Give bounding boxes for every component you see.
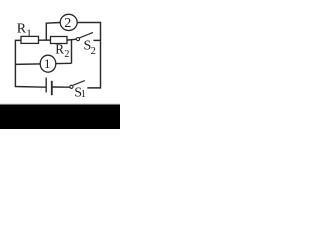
svg-text:1: 1: [44, 56, 51, 71]
svg-text:R: R: [17, 22, 27, 37]
svg-text:R: R: [55, 41, 64, 56]
svg-text:2: 2: [91, 46, 96, 57]
svg-text:2: 2: [64, 49, 69, 60]
svg-text:1: 1: [81, 89, 86, 100]
svg-text:2: 2: [64, 16, 71, 31]
svg-text:1: 1: [26, 28, 32, 40]
